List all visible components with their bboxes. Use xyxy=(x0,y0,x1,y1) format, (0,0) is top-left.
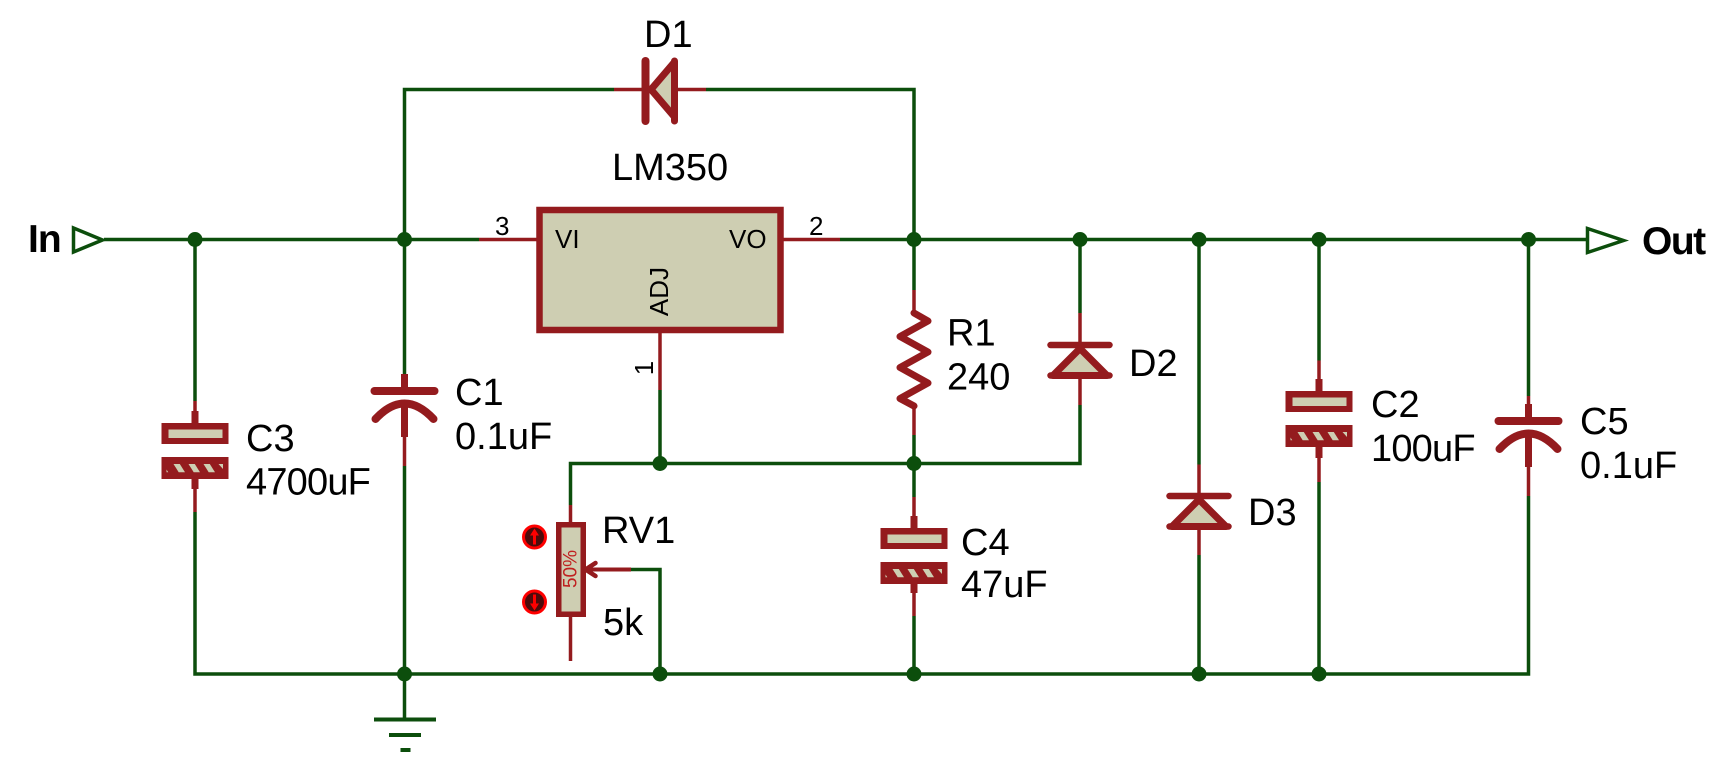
resistor R1 xyxy=(900,313,928,406)
svg-text:2: 2 xyxy=(809,211,823,241)
svg-text:0.1uF: 0.1uF xyxy=(1580,445,1677,487)
op-amp U1: LM350 regulator body xyxy=(540,210,781,330)
diode D3 leads xyxy=(1197,465,1201,494)
wire: RV1 wiper return xyxy=(631,570,660,675)
pin VI stub xyxy=(479,238,537,242)
svg-text:47uF: 47uF xyxy=(961,564,1048,606)
node: ground junction xyxy=(397,667,412,682)
svg-text:In: In xyxy=(28,218,61,261)
wire: R1 bottom xyxy=(912,435,916,464)
capacitor C1 xyxy=(375,374,435,466)
svg-text:C5: C5 xyxy=(1580,401,1629,443)
wire: D2 top xyxy=(1078,240,1082,314)
node: In/C3 xyxy=(188,232,203,247)
wire: C5 top xyxy=(1527,240,1531,397)
svg-text:RV1: RV1 xyxy=(602,510,675,552)
svg-text:Out: Out xyxy=(1642,220,1706,263)
svg-text:VO: VO xyxy=(729,224,767,254)
resistor R1 leads xyxy=(912,290,916,313)
ground xyxy=(374,720,436,751)
pin VO stub xyxy=(783,238,840,242)
wire: R1 top xyxy=(912,240,916,291)
svg-text:0.1uF: 0.1uF xyxy=(455,416,552,458)
diode D3 xyxy=(1170,496,1229,527)
svg-text:C2: C2 xyxy=(1371,384,1420,426)
diode D1 xyxy=(646,61,675,121)
potentiometer RV1 bottom lead xyxy=(569,615,573,661)
wire: D3 top xyxy=(1197,240,1201,465)
capacitor C2 leads xyxy=(1317,361,1321,393)
capacitor C4 xyxy=(881,528,948,584)
potentiometer RV1 wiper arrow xyxy=(586,568,631,572)
wire: bottom rail with C3 and C5 columns xyxy=(195,496,1529,674)
wire: C2 bottom xyxy=(1317,482,1321,674)
capacitor C2 xyxy=(1286,391,1353,447)
svg-text:ADJ: ADJ xyxy=(644,267,674,316)
diode D2 xyxy=(1051,345,1110,376)
svg-text:C1: C1 xyxy=(455,372,504,414)
node: C1/D1/VI xyxy=(397,232,412,247)
svg-text:50%: 50% xyxy=(561,550,582,588)
svg-text:D1: D1 xyxy=(644,14,693,56)
diode D1 pin leads xyxy=(614,88,643,92)
svg-text:1: 1 xyxy=(629,361,659,375)
svg-text:C3: C3 xyxy=(246,418,295,460)
pin ADJ stub xyxy=(658,330,662,390)
wire: ground stub xyxy=(403,674,407,719)
wire: C1 column top xyxy=(403,240,407,378)
terminal: Out xyxy=(1588,229,1624,253)
svg-text:4700uF: 4700uF xyxy=(246,462,370,504)
node: D3 bottom xyxy=(1192,667,1207,682)
wire: C4 top xyxy=(912,464,916,498)
wire: C4 bottom xyxy=(912,616,916,674)
node: C5/Out xyxy=(1521,232,1536,247)
svg-text:D2: D2 xyxy=(1129,343,1178,385)
terminal: In xyxy=(74,228,103,252)
wire: VO rail to Out xyxy=(840,238,1587,242)
node: R1/C4 junction xyxy=(907,456,922,471)
node: C4 bottom xyxy=(907,667,922,682)
capacitor C1 lead xyxy=(403,377,407,388)
wire: ADJ pin to node xyxy=(658,390,662,464)
node: D3 top xyxy=(1192,232,1207,247)
wire: In rail xyxy=(104,238,479,242)
wire: C2 top xyxy=(1317,240,1321,361)
capacitor C5 xyxy=(1499,404,1559,496)
svg-text:5k: 5k xyxy=(603,602,644,644)
svg-text:D3: D3 xyxy=(1248,492,1297,534)
wire: D3 bottom xyxy=(1197,555,1201,674)
node: C2 bottom xyxy=(1312,667,1327,682)
wire: D1 loop right xyxy=(706,90,914,240)
svg-text:C4: C4 xyxy=(961,522,1010,564)
diode D2 leads xyxy=(1078,313,1082,342)
svg-text:R1: R1 xyxy=(947,313,996,355)
wire: C1 column bottom xyxy=(403,466,407,674)
node: VO/D1/R1 xyxy=(907,232,922,247)
node: wiper return xyxy=(653,667,668,682)
RV1 decrement button xyxy=(524,591,546,613)
potentiometer RV1 body xyxy=(559,525,584,615)
capacitor C5 lead xyxy=(1527,396,1531,418)
RV1 increment button xyxy=(524,526,546,548)
capacitor C3 leads xyxy=(193,401,197,424)
svg-text:VI: VI xyxy=(555,224,580,254)
node: D2 top xyxy=(1073,232,1088,247)
capacitor C4 leads xyxy=(912,497,916,529)
svg-text:100uF: 100uF xyxy=(1371,428,1475,470)
capacitor C3 xyxy=(162,423,229,479)
svg-text:240: 240 xyxy=(947,357,1010,399)
node: ADJ junction xyxy=(653,456,668,471)
wire: ADJ horizontal line with pot drop and D2 drop xyxy=(571,405,1081,505)
potentiometer RV1 top lead xyxy=(569,505,573,523)
node: C2 top xyxy=(1312,232,1327,247)
wire: C3 column top xyxy=(193,240,197,402)
svg-text:LM350: LM350 xyxy=(612,147,728,189)
svg-text:3: 3 xyxy=(495,211,509,241)
wire: D1 loop left xyxy=(405,90,615,240)
